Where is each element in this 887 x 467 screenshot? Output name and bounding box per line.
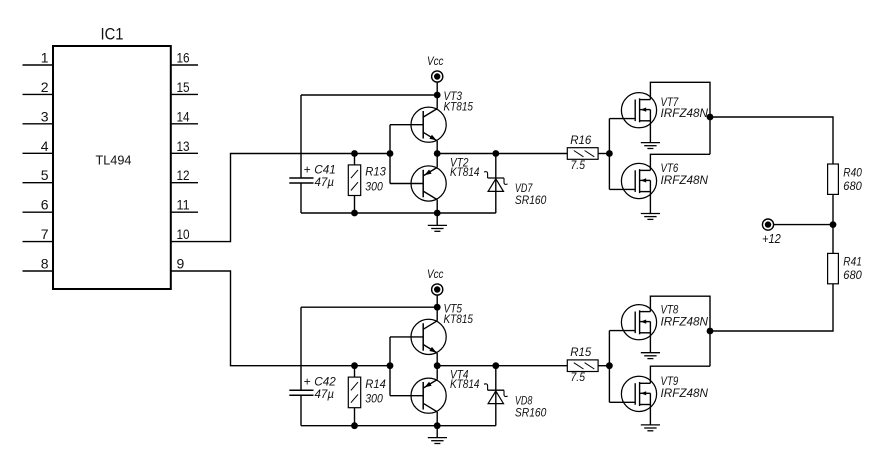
diode VD8 labels [515, 393, 547, 419]
svg-text:14: 14 [177, 108, 190, 124]
resistor R13 body [348, 165, 360, 196]
node emitters junction [434, 150, 441, 157]
resistor R13 labels [365, 165, 386, 194]
svg-text:6: 6 [41, 197, 49, 213]
wire pin 9 to lower driver input [171, 271, 390, 366]
pin 15 wire [171, 93, 198, 95]
VT6 labels [661, 161, 709, 187]
pin 7 number [41, 226, 49, 242]
pin 2 wire [23, 93, 54, 95]
svg-text:300: 300 [365, 179, 383, 193]
ground (VT8 source) [641, 353, 660, 359]
pin 10 number [177, 226, 190, 242]
svg-text:SR160: SR160 [515, 193, 547, 207]
IC1 reference label [101, 25, 124, 44]
pin 8 number [41, 256, 49, 272]
svg-text:47µ: 47µ [315, 175, 335, 189]
wire pin 10 to upper driver input [171, 154, 390, 242]
svg-text:TL494: TL494 [96, 153, 132, 168]
pin 7 wire [23, 241, 54, 243]
pin 6 number [41, 197, 49, 213]
wire VD7 vertical [495, 154, 497, 214]
wire C42 upper lead [300, 307, 302, 390]
wire gate column [608, 119, 610, 190]
pin 3 wire [23, 123, 54, 125]
wire Vcc terminal to collector node [436, 82, 438, 95]
pin 4 wire [23, 152, 54, 154]
op-amp/PWM IC U1: IC1 TL494 body [53, 46, 171, 289]
resistor R40 labels [843, 165, 862, 193]
svg-text:Vcc: Vcc [427, 54, 444, 68]
diode VD7 labels [515, 181, 547, 207]
node VD7 top [492, 150, 499, 157]
wire R41 to lower output [710, 284, 833, 331]
pin 13 number [177, 138, 190, 154]
svg-text:Vcc: Vcc [427, 267, 444, 281]
svg-text:4: 4 [41, 138, 49, 154]
wire collector rail [301, 94, 437, 96]
pin 3 number [41, 108, 49, 124]
wire VT8 source to ground [649, 322, 651, 353]
node bases junction [387, 150, 394, 157]
node +12 junction [830, 221, 837, 228]
svg-text:IRFZ48N: IRFZ48N [661, 173, 709, 187]
svg-text:KT814: KT814 [450, 165, 480, 179]
VT5 labels [444, 301, 474, 326]
pin 11 wire [171, 211, 198, 213]
VT7 labels [661, 95, 709, 120]
svg-text:KT815: KT815 [444, 312, 474, 326]
node output junction [707, 328, 714, 335]
wire bases junction column [389, 337, 391, 396]
pin 4 number [41, 138, 49, 154]
+12 label [762, 231, 781, 246]
wire ground lead [436, 426, 438, 438]
VT8 labels [661, 303, 709, 329]
wire Vcc terminal to collector node [436, 295, 438, 308]
wire VT7 drain to output [650, 82, 710, 154]
pin 5 number [41, 167, 49, 183]
svg-text:11: 11 [177, 197, 190, 213]
svg-text:R16: R16 [570, 133, 591, 147]
pin 14 wire [171, 123, 198, 125]
wire upper output to R40 [710, 117, 833, 164]
transistor VT6 (N-MOSFET) [609, 163, 656, 198]
wire gate column [608, 331, 610, 403]
wire C41 lower lead [300, 183, 302, 213]
pin 12 number [177, 167, 190, 183]
wire output rail [437, 365, 567, 367]
ground (VT9 source) [641, 425, 660, 431]
node base rail / R14 top [351, 362, 358, 369]
svg-text:15: 15 [177, 79, 190, 95]
svg-text:R15: R15 [570, 345, 591, 359]
svg-text:IRFZ48N: IRFZ48N [661, 315, 709, 329]
wire C42 lower lead [300, 395, 302, 426]
resistor R40 body [828, 164, 839, 194]
wire R16 to gate node [598, 153, 609, 155]
wire R14 top lead [354, 366, 356, 377]
pin 14 number [177, 108, 190, 124]
resistor R14 labels [365, 377, 386, 406]
node PNP collector / ground [434, 422, 441, 429]
transistor VT8 (N-MOSFET) [609, 305, 656, 340]
wire VT9 drain [650, 366, 710, 383]
svg-text:10: 10 [177, 226, 190, 242]
pin 6 wire [23, 211, 54, 213]
transistor VT7 (N-MOSFET) [609, 93, 656, 128]
svg-text:2: 2 [41, 79, 49, 95]
svg-text:9: 9 [177, 256, 185, 272]
svg-text:3: 3 [41, 108, 49, 124]
pin 2 number [41, 79, 49, 95]
svg-text:IRFZ48N: IRFZ48N [661, 386, 709, 400]
diode VD8 (Schottky) [484, 384, 508, 404]
pin 12 wire [171, 182, 198, 184]
svg-text:IRFZ48N: IRFZ48N [661, 106, 709, 120]
wire R40 to center node [832, 194, 834, 253]
svg-text:5: 5 [41, 167, 49, 183]
wire R13 top lead [354, 154, 356, 165]
svg-text:7.5: 7.5 [571, 158, 586, 172]
TL494 value label [96, 153, 132, 168]
svg-text:+: + [304, 375, 311, 389]
transistor VT2 (PNP) [390, 154, 446, 214]
resistor R41 body [828, 253, 839, 283]
svg-text:8: 8 [41, 256, 49, 272]
wire bottom rail [301, 212, 496, 214]
transistor VT9 (N-MOSFET) [609, 376, 656, 411]
node gate junction [606, 362, 613, 369]
pin 8 wire [23, 270, 54, 272]
svg-text:+12: +12 [762, 231, 781, 246]
VT3 labels [444, 89, 474, 114]
terminal Vcc (stage 1) [432, 71, 443, 82]
terminal Vcc (stage 2) [432, 284, 443, 295]
node base rail / R13 top [351, 150, 358, 157]
resistor R15 labels [570, 345, 591, 384]
svg-text:+: + [304, 163, 311, 177]
wire VT6 source to ground [649, 180, 651, 213]
wire +12 terminal to node [773, 224, 833, 226]
node output junction [707, 114, 714, 121]
svg-text:R41: R41 [843, 255, 862, 269]
diode VD7 (Schottky) [484, 172, 508, 192]
pin 16 wire [171, 64, 198, 66]
wire R15 to gate node [598, 365, 609, 367]
svg-text:IC1: IC1 [101, 25, 124, 44]
wire collector rail [301, 306, 437, 308]
transistor VT4 (PNP) [390, 366, 446, 426]
resistor R16 labels [570, 133, 591, 172]
resistor R14 body [348, 377, 360, 408]
node VD8 top [492, 362, 499, 369]
pin 5 wire [23, 182, 54, 184]
VT2 labels [450, 156, 480, 180]
node bases junction [387, 362, 394, 369]
ground (VT7 source) [641, 143, 660, 149]
svg-text:680: 680 [843, 179, 862, 193]
resistor R15 body [567, 360, 598, 372]
svg-text:7.5: 7.5 [571, 370, 586, 384]
wire VT6 drain [650, 154, 710, 170]
capacitor C42 labels [304, 375, 337, 402]
VT4 labels [450, 368, 480, 392]
svg-text:KT814: KT814 [450, 377, 480, 391]
svg-text:R13: R13 [365, 165, 386, 179]
svg-text:12: 12 [177, 167, 190, 183]
svg-text:1: 1 [41, 50, 49, 66]
wire R14 bottom lead [354, 408, 356, 426]
node PNP collector / ground [434, 210, 441, 217]
wire ground lead [436, 213, 438, 225]
wire VT9 source to ground [649, 393, 651, 425]
pin 16 number [177, 50, 190, 66]
node R14 bottom [351, 422, 358, 429]
terminal +12 [762, 219, 773, 230]
transistor VT3 (NPN) [390, 95, 446, 154]
wire bases junction column [389, 125, 391, 184]
wire VT8 drain to output [650, 296, 710, 366]
capacitor C41 [289, 178, 313, 183]
svg-text:300: 300 [365, 392, 383, 406]
node R13 bottom [351, 210, 358, 217]
wire C41 upper lead [300, 95, 302, 178]
ground (stage 2) [428, 438, 447, 444]
svg-text:680: 680 [843, 268, 862, 282]
wire VD8 vertical [495, 366, 497, 426]
svg-text:16: 16 [177, 50, 190, 66]
Vcc label (stage 2) [427, 267, 444, 281]
resistor R16 body [567, 148, 598, 160]
pin 1 number [41, 50, 49, 66]
VT9 labels [661, 374, 709, 400]
wire bottom rail [301, 425, 496, 427]
transistor VT5 (NPN) [390, 307, 446, 366]
svg-text:R40: R40 [843, 165, 862, 179]
ground (stage 1) [428, 225, 447, 231]
pin 13 wire [171, 152, 198, 154]
node emitters junction [434, 362, 441, 369]
capacitor C42 [289, 390, 313, 395]
node collector rail (stage 2) [434, 304, 441, 311]
svg-text:13: 13 [177, 138, 190, 154]
pin 9 number [177, 256, 185, 272]
wire output rail [437, 153, 567, 155]
pin 1 wire [23, 64, 54, 66]
node collector rail (stage 1) [434, 92, 441, 99]
svg-text:7: 7 [41, 226, 49, 242]
ground (VT6 source) [641, 214, 660, 220]
svg-text:R14: R14 [365, 377, 386, 391]
wire VT7 source to ground [649, 110, 651, 143]
resistor R41 labels [843, 255, 862, 283]
svg-text:KT815: KT815 [444, 100, 474, 114]
pin 11 number [177, 197, 190, 213]
svg-text:47µ: 47µ [315, 387, 335, 401]
Vcc label (stage 1) [427, 54, 444, 68]
capacitor C41 labels [304, 163, 336, 190]
node gate junction [606, 150, 613, 157]
wire R13 bottom lead [354, 196, 356, 214]
pin 15 number [177, 79, 190, 95]
svg-text:SR160: SR160 [515, 405, 547, 419]
